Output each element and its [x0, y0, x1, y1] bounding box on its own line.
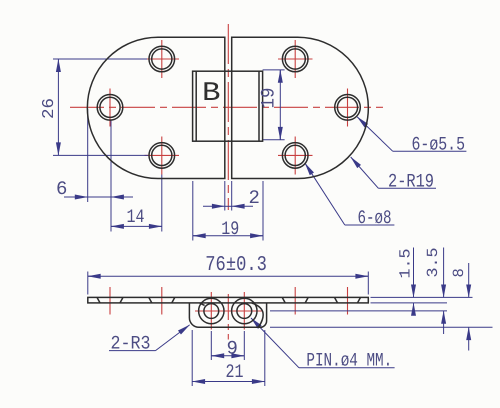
svg-text:2-R3: 2-R3	[111, 333, 151, 355]
leader 2-R3	[109, 350, 156, 352]
crosshair hole top-right	[278, 58, 313, 60]
countersink profile col4	[335, 297, 338, 303]
dim 2 extension lines	[224, 181, 226, 211]
side view right knuckle vertical centerline	[243, 292, 245, 330]
dim 3.5 line with outside arrows	[443, 248, 445, 286]
leader 2-R19	[378, 187, 436, 189]
crosshair hole bottom-right	[278, 154, 313, 156]
dim 8 line with outside arrows	[468, 263, 470, 285]
leader PIN	[299, 367, 395, 369]
side view column centerline 2	[161, 287, 163, 315]
dim 76 line with arrows	[88, 275, 369, 277]
dim 26 extension lines	[53, 58, 147, 60]
dim 76 extension lines	[87, 272, 89, 295]
dim 6/14 extension line at hole column	[110, 120, 112, 232]
leader 6-dia8	[345, 224, 395, 226]
dim 1.5 line with outside arrows	[413, 248, 415, 286]
dim 9 line with arrows	[211, 355, 244, 357]
dim 6 extension line at part left edge	[87, 109, 89, 202]
svg-text:2: 2	[249, 187, 260, 209]
left knuckle outer circle	[199, 298, 224, 323]
crosshair hole top-left	[145, 58, 180, 60]
svg-text:6-ø8: 6-ø8	[358, 207, 392, 229]
knuckle rectangle inner line right	[258, 71, 260, 141]
knuckle housing	[189, 303, 266, 327]
dim 14 extension line at hole column 2	[161, 175, 163, 232]
hole bottom-left	[149, 143, 175, 169]
svg-text:9: 9	[227, 338, 238, 360]
dim 19 bottom line with arrows	[193, 235, 263, 237]
knuckle rectangle inner line left	[195, 71, 197, 141]
dim 9 extension lines	[210, 331, 212, 360]
countersink profile col3	[282, 297, 285, 303]
left knuckle pin circle	[204, 304, 219, 319]
hinge left leaf outline	[87, 37, 224, 178]
extension line housing bottom	[270, 326, 493, 328]
dim 21 extension lines	[191, 330, 193, 386]
side view plate outline	[88, 297, 369, 303]
svg-text:2-R19: 2-R19	[388, 171, 434, 193]
hole top-left	[149, 46, 175, 72]
svg-text:1.5: 1.5	[397, 249, 415, 279]
main vertical centerline top view	[227, 24, 229, 210]
side view column centerline 3	[294, 287, 296, 315]
dim 14 line with arrows	[111, 225, 162, 227]
side view column centerline 1	[109, 287, 111, 315]
knuckle rectangle B outer	[193, 71, 263, 141]
extension line plate top	[371, 296, 473, 298]
crosshair hole middle-right vertical	[347, 89, 349, 127]
svg-text:PIN.ø4 MM.: PIN.ø4 MM.	[306, 350, 392, 372]
svg-text:8: 8	[450, 268, 468, 277]
crosshair hole middle-left vertical	[109, 89, 111, 127]
svg-text:14: 14	[127, 206, 145, 228]
hole top-right	[282, 46, 308, 72]
leader 6-dia5.5	[393, 150, 467, 152]
svg-text:B: B	[202, 79, 221, 109]
svg-text:19: 19	[258, 88, 280, 109]
crosshair hole bottom-left	[145, 154, 180, 156]
extension line pin center	[270, 310, 447, 312]
hole bottom-right	[282, 143, 308, 169]
svg-text:6: 6	[56, 178, 67, 200]
hinge right leaf outline	[232, 37, 369, 178]
side view pin horizontal centerline	[195, 310, 262, 312]
countersink profile col2	[149, 297, 152, 303]
svg-text:26: 26	[39, 98, 58, 119]
svg-text:3.5: 3.5	[424, 248, 442, 278]
side view column centerline 4	[347, 287, 349, 315]
dim 21 line with arrows	[192, 381, 265, 383]
svg-text:6-ø5.5: 6-ø5.5	[412, 134, 466, 156]
hole middle-right	[335, 95, 361, 121]
dim 19 bottom extension lines	[192, 181, 194, 241]
svg-text:19: 19	[221, 218, 239, 240]
main horizontal centerline top view	[70, 106, 383, 108]
side view left knuckle vertical centerline	[210, 292, 212, 330]
svg-text:76±0.3: 76±0.3	[205, 254, 267, 277]
dim 19 vertical extension lines	[263, 69, 285, 71]
dim 19 vertical line with arrows	[279, 70, 281, 140]
side view main vertical centerline	[227, 294, 229, 340]
dim 2 line with outside arrows	[225, 205, 232, 207]
dim 26 line with arrows	[57, 70, 59, 144]
svg-text:21: 21	[226, 361, 244, 383]
extension line plate bottom	[371, 302, 448, 304]
left knuckle seam line	[200, 303, 205, 305]
countersink profile col1	[97, 297, 100, 303]
hole middle-left	[97, 95, 123, 121]
right knuckle seam arc	[252, 303, 263, 327]
right knuckle pin circle	[237, 304, 252, 319]
right knuckle outer circle	[232, 298, 257, 323]
dim 6 line with outside arrows	[88, 196, 111, 198]
